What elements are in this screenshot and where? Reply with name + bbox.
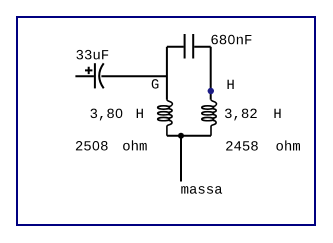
capacitor C2 680nF right plate <box>192 34 194 59</box>
label 680nF <box>211 35 251 45</box>
wire: bottom joining branches <box>167 135 211 137</box>
node H label <box>228 80 234 89</box>
label massa (ground) <box>181 186 222 194</box>
inductor L1 (left coil) 3,80 H <box>158 100 173 136</box>
label 33uF <box>77 50 109 60</box>
junction dot <box>178 133 184 139</box>
border frame <box>17 17 315 225</box>
inductor L2 (right coil) 3,82 H <box>202 100 217 136</box>
capacitor C1 33uF curved plate <box>99 63 104 88</box>
capacitor C1 polarity plus sign <box>85 67 92 74</box>
wire: left input to capacitor C1 <box>75 75 94 77</box>
label H of L2 <box>274 109 280 118</box>
wire: left vertical branch <box>166 47 168 100</box>
label 3,80 <box>91 109 123 121</box>
label 2458 <box>226 141 258 151</box>
wire: stub to massa <box>180 136 182 182</box>
label H of L1 <box>137 109 143 118</box>
label ohm of L2 <box>276 140 300 150</box>
node H dot <box>208 88 214 94</box>
label 3,82 <box>225 109 257 121</box>
wire: capacitor C1 to node G <box>101 75 166 77</box>
wire: right vertical branch <box>210 47 212 100</box>
label 2508 <box>76 141 108 151</box>
node G label <box>152 79 159 89</box>
capacitor C2 680nF left plate <box>184 34 186 59</box>
wire: top right segment <box>194 46 211 48</box>
label ohm of L1 <box>123 140 147 150</box>
capacitor C1 33uF straight plate <box>94 63 96 88</box>
wire: top left segment <box>167 46 184 48</box>
